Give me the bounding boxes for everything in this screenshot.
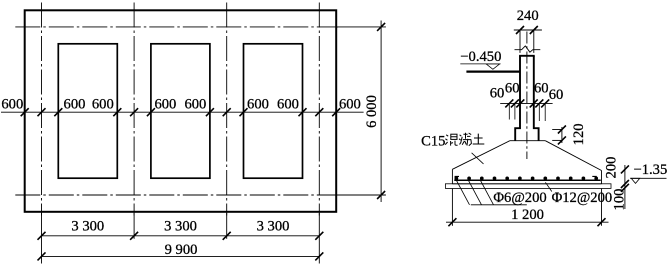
trapezoid footing top line bbox=[510, 140, 546, 142]
level mark -1.35 triangle bbox=[631, 178, 640, 183]
break line at wall top bbox=[515, 46, 541, 52]
footing bottom line bbox=[452, 183, 601, 185]
extension line c1 below bbox=[41, 213, 43, 264]
svg-text:Φ12@200: Φ12@200 bbox=[552, 190, 613, 206]
centerline vertical 2 bbox=[133, 3, 135, 216]
svg-text:600: 600 bbox=[64, 97, 86, 113]
dim line 240 bbox=[514, 29, 542, 31]
centerline vertical 4 bbox=[318, 3, 320, 216]
centerline horizontal top bbox=[15, 26, 338, 28]
120 dim extension lines bbox=[552, 129, 562, 131]
level mark -1.35 line bbox=[630, 177, 666, 179]
inner opening 1 bbox=[58, 44, 117, 178]
outer wall rectangle bbox=[25, 10, 337, 212]
svg-text:3 300: 3 300 bbox=[164, 218, 197, 234]
centerline vertical 1 bbox=[41, 3, 43, 216]
svg-text:1 200: 1 200 bbox=[511, 207, 544, 223]
extension line c4 below bbox=[318, 213, 320, 264]
CJK tu bbox=[473, 134, 485, 144]
svg-text:−0.450: −0.450 bbox=[460, 49, 501, 65]
centerline horizontal bottom bbox=[15, 194, 338, 196]
svg-text:600: 600 bbox=[92, 97, 114, 113]
svg-text:60: 60 bbox=[534, 81, 549, 97]
inner opening 2 bbox=[151, 44, 210, 178]
extension line c3 below bbox=[226, 213, 228, 239]
trapezoid slope left bbox=[452, 141, 509, 170]
wall top cut line bbox=[519, 55, 535, 57]
cushion layer bbox=[445, 184, 611, 189]
phi6 underline bbox=[471, 204, 527, 206]
leader C15 bbox=[472, 153, 484, 164]
steps dim line bbox=[500, 102, 552, 104]
svg-text:Φ6@200: Φ6@200 bbox=[493, 190, 546, 206]
svg-text:−1.35: −1.35 bbox=[634, 162, 667, 178]
rebar hook right bbox=[592, 176, 596, 179]
dim line 600 row bbox=[1, 111, 364, 113]
svg-text:60: 60 bbox=[549, 87, 564, 103]
phi6 leader lines bbox=[457, 181, 470, 205]
svg-text:600: 600 bbox=[184, 97, 206, 113]
svg-text:C15: C15 bbox=[421, 133, 445, 149]
svg-text:60: 60 bbox=[490, 86, 505, 102]
extension line c2 below bbox=[133, 213, 135, 239]
svg-text:3 300: 3 300 bbox=[71, 218, 104, 234]
svg-text:600: 600 bbox=[247, 97, 269, 113]
svg-text:600: 600 bbox=[154, 97, 176, 113]
svg-text:60: 60 bbox=[505, 81, 520, 97]
phi12 leader bbox=[545, 182, 551, 191]
dim line 1200 bbox=[446, 221, 609, 223]
CJK ning bbox=[459, 133, 471, 146]
dim line 6000 vertical bbox=[380, 21, 382, 203]
level mark -0.450 line bbox=[460, 63, 500, 65]
svg-text:100: 100 bbox=[611, 189, 627, 211]
svg-text:240: 240 bbox=[517, 8, 539, 24]
svg-text:3 300: 3 300 bbox=[257, 218, 290, 234]
1200 extension left bbox=[451, 189, 453, 226]
rebar hook left bbox=[455, 176, 459, 179]
centerline vertical 3 bbox=[226, 3, 228, 216]
wall right edge with step bbox=[534, 56, 539, 141]
right dim line vertical bbox=[624, 165, 626, 209]
rebar dots bbox=[455, 177, 599, 181]
steps extension lines bbox=[508, 103, 510, 119]
CJK hun bbox=[445, 134, 457, 145]
120 dim line bbox=[561, 127, 563, 143]
trapezoid slope right bbox=[545, 141, 601, 171]
dim line 3300 row bbox=[42, 235, 320, 237]
svg-text:9 900: 9 900 bbox=[165, 242, 198, 258]
dim line 9900 row bbox=[42, 255, 320, 257]
ticks on 600 row bbox=[21, 108, 29, 116]
footing edge right bbox=[601, 171, 603, 184]
1200 extension right bbox=[601, 189, 603, 226]
svg-text:600: 600 bbox=[1, 97, 23, 113]
inner opening 3 bbox=[244, 44, 303, 178]
svg-text:120: 120 bbox=[571, 123, 587, 145]
section centerline bbox=[526, 32, 528, 160]
extension line bottom for 6000 dim bbox=[336, 194, 386, 196]
rebar main line bbox=[454, 179, 600, 181]
svg-text:200: 200 bbox=[604, 157, 620, 179]
svg-text:6 000: 6 000 bbox=[364, 95, 380, 128]
footing edge left bbox=[451, 169, 453, 184]
extension lines 240 bbox=[519, 30, 521, 53]
ground line thick bbox=[466, 70, 520, 72]
svg-text:600: 600 bbox=[339, 97, 361, 113]
level mark -0.450 triangle bbox=[486, 64, 500, 69]
svg-text:600: 600 bbox=[277, 97, 299, 113]
extension line top for 6000 dim bbox=[336, 26, 386, 28]
wall left edge with step bbox=[515, 56, 520, 141]
